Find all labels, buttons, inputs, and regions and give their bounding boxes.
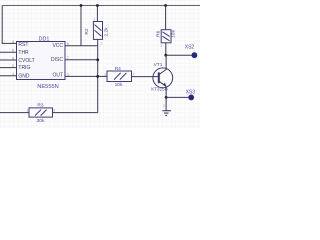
svg-text:XS2: XS2 — [185, 45, 195, 51]
svg-text:R2: R2 — [84, 28, 90, 34]
svg-text:VT1: VT1 — [154, 62, 163, 68]
wire R3 left to edge — [0, 112, 29, 114]
resistor R4 body — [107, 71, 132, 82]
IC DD1 body — [17, 42, 66, 80]
wire rail drop to R2 top — [96, 6, 98, 22]
junction rail x165 — [164, 4, 167, 7]
svg-text:R3: R3 — [37, 102, 43, 108]
wire emitter to ground — [165, 97, 167, 110]
wire VCC pin to R2 bottom net — [65, 45, 98, 47]
wire left drop from rail to RST — [2, 6, 16, 44]
svg-text:NE555N: NE555N — [37, 84, 59, 90]
transistor VT1 emitter with arrow — [159, 81, 166, 97]
wire R4 to base — [132, 76, 159, 78]
svg-text:4: 4 — [12, 40, 14, 44]
svg-text:1: 1 — [104, 72, 106, 76]
svg-text:1: 1 — [27, 109, 29, 113]
transistor VT1 base bar — [158, 72, 160, 83]
svg-text:DD1: DD1 — [39, 36, 50, 42]
svg-text:R6: R6 — [156, 30, 162, 36]
svg-text:XS3: XS3 — [186, 90, 196, 96]
svg-text:DISC: DISC — [51, 57, 63, 63]
svg-text:3: 3 — [163, 104, 165, 108]
wire to XS3 — [166, 96, 188, 98]
junction OUT cross — [96, 75, 99, 78]
svg-text:10k: 10k — [170, 30, 176, 38]
svg-text:6: 6 — [12, 49, 14, 53]
wire OUT pin to R4 — [65, 75, 107, 77]
junction rail x81 — [80, 4, 83, 7]
wire TRIG from left edge — [0, 67, 17, 69]
wire R6 bottom to collector — [165, 43, 167, 55]
resistor R3 diagonal strokes — [35, 110, 41, 116]
resistor R6 body — [161, 30, 171, 43]
wire THR from left edge — [0, 51, 17, 53]
svg-text:2: 2 — [133, 72, 135, 76]
resistor R2 body — [93, 22, 102, 40]
wire vertical bus R2/DISC/OUT/R3 — [97, 46, 99, 113]
wire GND from left edge — [0, 75, 17, 77]
junction DISC — [96, 58, 99, 61]
resistor R6 diagonal strokes — [162, 32, 169, 37]
svg-text:2: 2 — [160, 44, 162, 48]
wire CVOLT from left edge — [0, 59, 17, 61]
svg-text:THR: THR — [18, 50, 29, 56]
svg-text:10k: 10k — [115, 82, 123, 88]
connector XS3 pad — [188, 95, 194, 101]
svg-text:R4: R4 — [115, 66, 121, 72]
svg-text:GND: GND — [18, 74, 30, 80]
svg-text:2: 2 — [12, 64, 14, 68]
wire rail drop to VCC net — [80, 6, 82, 46]
svg-text:1: 1 — [93, 17, 95, 21]
svg-text:RST: RST — [18, 42, 28, 48]
wire rail drop to R6 — [165, 6, 167, 30]
svg-text:KT315B: KT315B — [151, 86, 168, 91]
junction XS2 node — [164, 54, 167, 57]
resistor R2 diagonal strokes — [95, 25, 102, 31]
svg-text:30k: 30k — [37, 118, 45, 124]
wire R2 bottom stub — [97, 39, 99, 45]
connector XS2 pad — [192, 52, 198, 58]
junction rail x97 — [96, 4, 99, 7]
wire top supply rail — [2, 5, 200, 7]
wire R3 to bus — [53, 112, 98, 114]
svg-text:1: 1 — [12, 72, 14, 76]
resistor R3 body — [29, 108, 53, 117]
wire to XS2 — [166, 54, 192, 56]
svg-text:TRIG: TRIG — [18, 65, 30, 71]
svg-text:OUT: OUT — [52, 73, 63, 79]
svg-text:CVOLT: CVOLT — [18, 58, 34, 64]
transistor VT1 collector — [159, 55, 166, 74]
svg-text:VCC: VCC — [52, 43, 63, 49]
transistor VT1 circle — [153, 68, 173, 88]
svg-text:5: 5 — [12, 56, 14, 60]
svg-text:2.2k: 2.2k — [104, 27, 110, 37]
junction XS3 node — [165, 96, 168, 99]
wire DISC pin — [65, 59, 98, 61]
svg-text:2: 2 — [53, 109, 55, 113]
ground symbol — [162, 111, 171, 116]
svg-text:2: 2 — [101, 42, 103, 46]
resistor R4 diagonal strokes — [114, 73, 121, 80]
